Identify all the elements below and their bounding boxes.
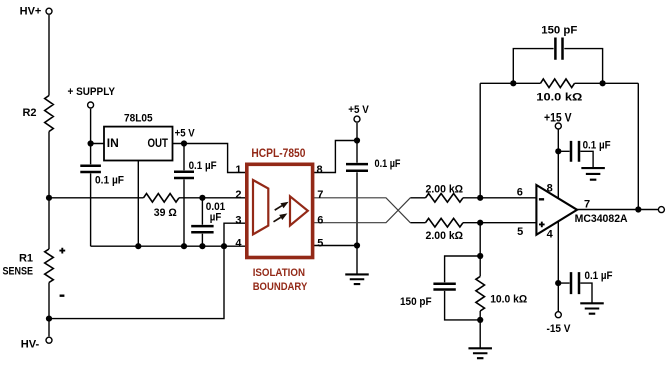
svg-text:R1: R1 <box>19 253 33 265</box>
svg-text:ISOLATION: ISOLATION <box>253 267 305 279</box>
svg-text:+5 V: +5 V <box>348 104 369 116</box>
svg-text:6: 6 <box>317 214 323 226</box>
svg-text:5: 5 <box>317 237 323 249</box>
svg-text:HV+: HV+ <box>20 6 42 18</box>
svg-text:8: 8 <box>547 182 553 194</box>
svg-text:OUT: OUT <box>148 136 169 150</box>
svg-text:MC34082A: MC34082A <box>575 213 628 225</box>
svg-text:150 pF: 150 pF <box>541 24 577 36</box>
svg-text:39 Ω: 39 Ω <box>154 207 177 219</box>
svg-text:+15 V: +15 V <box>544 110 572 124</box>
svg-text:0.1 µF: 0.1 µF <box>95 175 124 187</box>
svg-text:0.1 µF: 0.1 µF <box>583 140 611 152</box>
svg-text:0.1 µF: 0.1 µF <box>375 158 401 170</box>
svg-text:2.00 kΩ: 2.00 kΩ <box>426 183 464 195</box>
svg-text:2.00 kΩ: 2.00 kΩ <box>426 230 464 242</box>
svg-text:5: 5 <box>517 226 523 238</box>
svg-text:2: 2 <box>235 189 241 201</box>
svg-text:+ SUPPLY: + SUPPLY <box>68 86 116 98</box>
svg-text:BOUNDARY: BOUNDARY <box>253 281 308 293</box>
svg-text:µF: µF <box>210 211 222 223</box>
svg-text:78L05: 78L05 <box>124 112 153 124</box>
svg-text:3: 3 <box>235 214 241 226</box>
svg-text:7: 7 <box>584 199 590 211</box>
svg-text:4: 4 <box>235 237 242 249</box>
svg-text:0.1 µF: 0.1 µF <box>585 270 613 282</box>
svg-text:HV-: HV- <box>21 339 40 351</box>
svg-text:8: 8 <box>317 164 323 176</box>
svg-text:7: 7 <box>317 189 323 201</box>
svg-text:10.0 kΩ: 10.0 kΩ <box>536 92 582 104</box>
svg-text:+5 V: +5 V <box>175 128 196 140</box>
svg-text:1: 1 <box>235 164 241 176</box>
svg-text:10.0 kΩ: 10.0 kΩ <box>490 293 527 305</box>
svg-text:-15 V: -15 V <box>547 323 572 335</box>
svg-text:0.1 µF: 0.1 µF <box>189 160 217 172</box>
svg-text:HCPL-7850: HCPL-7850 <box>251 148 305 160</box>
svg-text:R2: R2 <box>22 107 36 119</box>
svg-text:6: 6 <box>517 186 523 198</box>
svg-text:150 pF: 150 pF <box>400 296 432 308</box>
svg-text:4: 4 <box>547 229 554 241</box>
svg-text:IN: IN <box>107 136 119 150</box>
svg-text:SENSE: SENSE <box>3 265 34 277</box>
